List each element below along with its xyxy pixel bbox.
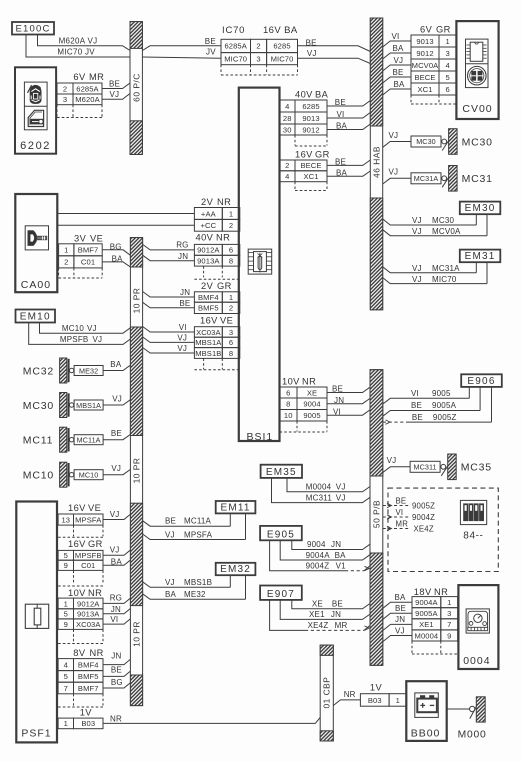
svg-text:BG: BG <box>111 678 123 687</box>
PSF1 pin 5 9013A <box>58 609 73 619</box>
svg-text:VJ: VJ <box>110 90 120 99</box>
PSF1 16V VE continuation dashes <box>73 525 75 536</box>
0004 continuation dashes <box>411 641 413 653</box>
wire VJ from 10 PR to BSI1 MBS1B <box>143 348 195 354</box>
svg-text:E907: E907 <box>267 589 295 600</box>
svg-text:MC311: MC311 <box>306 493 333 502</box>
connector label E906 <box>461 374 502 387</box>
splice label EM10 <box>16 310 56 323</box>
svg-text:84--: 84-- <box>463 531 483 542</box>
svg-text:BA: BA <box>165 590 177 599</box>
CA00 pin 1 BMF7 <box>59 244 74 256</box>
svg-text:BE: BE <box>396 496 407 505</box>
0004 pin 9005A 3 <box>412 608 441 619</box>
svg-text:MC31: MC31 <box>462 173 493 185</box>
svg-text:6285A: 6285A <box>224 42 247 51</box>
BSI1 pin 9013A 8 <box>194 255 222 266</box>
wire VJ from MBS1A to 10 PR <box>103 400 130 405</box>
wire VI 9013 to 46 HAB <box>327 113 370 119</box>
svg-text:JN: JN <box>180 288 190 297</box>
wire VJ MIC70 from 46 HAB to EM31 <box>383 278 487 284</box>
svg-text:10V: 10V <box>68 588 86 598</box>
svg-text:MBS1B: MBS1B <box>195 349 221 358</box>
svg-text:9004: 9004 <box>303 400 320 409</box>
svg-text:MC35: MC35 <box>461 462 492 474</box>
svg-text:MC311: MC311 <box>414 462 437 471</box>
svg-text:NR: NR <box>434 587 448 597</box>
svg-text:BE: BE <box>411 401 422 410</box>
PSF1 pin 4 BMF4 <box>58 659 73 671</box>
svg-text:MC32: MC32 <box>23 366 54 378</box>
svg-text:E905: E905 <box>267 529 295 540</box>
harness bar 46 HAB <box>370 18 382 310</box>
svg-text:EM32: EM32 <box>220 564 251 575</box>
svg-text:MIC70: MIC70 <box>432 275 457 284</box>
svg-text:MR: MR <box>335 621 348 630</box>
svg-text:V1: V1 <box>336 562 347 571</box>
wire VJ from 50 P/B to MC311 <box>383 467 410 473</box>
svg-text:JN: JN <box>178 252 188 261</box>
wire from BB00 to ground M000 <box>447 708 470 710</box>
svg-text:BMF5: BMF5 <box>198 304 219 313</box>
svg-text:40V: 40V <box>295 90 313 100</box>
svg-text:5: 5 <box>446 73 450 82</box>
wire VI from BSI1 9005 to 50 P/B <box>327 410 370 415</box>
0004 pin M0004 9 <box>412 630 441 641</box>
svg-text:NR: NR <box>90 648 104 658</box>
BSI1 pin 8 9004 <box>280 398 298 410</box>
svg-text:16V: 16V <box>200 315 218 325</box>
svg-text:EM10: EM10 <box>20 312 51 323</box>
connector label E905 <box>260 526 302 540</box>
svg-text:10 PR: 10 PR <box>131 458 141 484</box>
wire BE MC11A from 10 PR to EM11 <box>143 521 231 527</box>
svg-text:7: 7 <box>447 620 451 629</box>
PSF1 pin 9 XC03A <box>58 619 73 630</box>
svg-text:9005Z: 9005Z <box>412 502 435 511</box>
svg-text:BA: BA <box>111 558 123 567</box>
svg-text:BMF7: BMF7 <box>78 246 99 255</box>
wire BE from 10 PR to BSI1 BMF5 <box>143 302 195 308</box>
svg-text:7: 7 <box>64 684 68 693</box>
svg-text:30: 30 <box>283 125 292 134</box>
svg-text:9004Z: 9004Z <box>412 513 435 522</box>
svg-text:M000: M000 <box>458 729 487 740</box>
icon DIP switch in 84 <box>460 500 486 524</box>
wire VJ from 10 PR to BSI1 MBS1A <box>143 337 195 343</box>
svg-text:MC11A: MC11A <box>184 517 212 526</box>
BSI1 pin BMF4 1 <box>194 292 222 302</box>
wire XE1 JN from E907 to 50 P/B <box>280 600 370 620</box>
svg-text:GR: GR <box>217 281 232 291</box>
svg-text:VE: VE <box>90 234 103 244</box>
wire 9004Z V1 dashed from E905 to 50 P/B <box>270 540 345 571</box>
6202 pin 3 M620A <box>57 94 73 105</box>
wire JN from PSF1 9013A to 10 PR <box>103 609 130 614</box>
wire BG from PSF1 BMF7 to 10 PR <box>103 683 130 688</box>
BSI1 pin XC03A 3 <box>194 327 222 338</box>
0004 pin XE1 7 <box>412 619 441 630</box>
svg-text:MPSFB: MPSFB <box>75 551 102 560</box>
svg-text:46 HAB: 46 HAB <box>372 146 382 178</box>
svg-text:1: 1 <box>229 293 233 302</box>
wire NR from 01 CBP to B03 fuse <box>333 700 360 706</box>
svg-text:EM35: EM35 <box>266 467 297 478</box>
svg-text:MIC70: MIC70 <box>224 55 247 64</box>
svg-text:3: 3 <box>229 328 233 337</box>
harness bar 10 PR <box>130 238 142 706</box>
svg-text:BE: BE <box>335 98 346 107</box>
BSI1 pin MBS1A 6 <box>194 337 222 347</box>
svg-text:2: 2 <box>285 161 289 170</box>
svg-text:EM11: EM11 <box>220 502 250 513</box>
svg-text:2: 2 <box>229 304 233 313</box>
svg-text:VJ: VJ <box>93 335 103 344</box>
svg-text:VJ: VJ <box>395 626 405 635</box>
wire +AA from CA00 to BSI1 <box>57 213 194 215</box>
svg-text:BMF5: BMF5 <box>78 672 99 681</box>
BSI1 pin MBS1B 8 <box>194 348 222 359</box>
svg-text:VI: VI <box>337 110 345 119</box>
svg-text:9004A: 9004A <box>306 551 331 560</box>
svg-text:8: 8 <box>229 257 233 266</box>
splice label EM30 <box>460 202 501 215</box>
CV00 inner icon frame <box>466 39 489 88</box>
BSI1 pin 4 6285 <box>280 100 296 112</box>
BSI1 40V NR continuation dashes <box>203 266 205 277</box>
wire BA from CA00 pin2 to 10 PR <box>102 262 130 267</box>
svg-text:3: 3 <box>447 609 451 618</box>
svg-text:XE1: XE1 <box>419 620 434 629</box>
svg-text:ME32: ME32 <box>184 590 206 599</box>
svg-text:EM31: EM31 <box>465 251 496 262</box>
BSI1 pin 9012A 6 <box>194 244 222 255</box>
svg-text:MC30: MC30 <box>416 137 436 146</box>
svg-text:1: 1 <box>64 599 68 608</box>
svg-text:VI: VI <box>333 407 341 416</box>
svg-text:VJ: VJ <box>307 49 317 58</box>
svg-text:8V: 8V <box>73 648 86 658</box>
svg-text:9005A: 9005A <box>415 609 438 618</box>
svg-text:3: 3 <box>63 95 67 104</box>
svg-text:VJ: VJ <box>336 483 346 492</box>
ground M000 <box>470 706 475 711</box>
svg-text:BE: BE <box>335 157 346 166</box>
wire XE BE from E907 to 50 P/B <box>292 600 370 609</box>
wire BA ME32 from 10 PR to EM32 <box>143 594 246 600</box>
PSF1 pin 13 MPSFA <box>58 514 73 525</box>
BSI1 16V GR continuation dashes <box>294 182 296 190</box>
future component 84 dashed box <box>388 488 498 571</box>
svg-text:VJ: VJ <box>111 464 121 473</box>
svg-text:2: 2 <box>256 42 260 51</box>
icon key in CA00 <box>25 226 48 250</box>
svg-text:6285: 6285 <box>273 42 290 51</box>
svg-text:JV: JV <box>206 47 216 56</box>
svg-text:9012A: 9012A <box>77 599 100 608</box>
wire VJ from 46 HAB to MC31 <box>383 178 411 184</box>
svg-text:M0004: M0004 <box>415 631 439 640</box>
CA00 continuation dashes <box>58 268 60 278</box>
wire VJ MC30 from 46 HAB to EM30 <box>383 219 477 225</box>
svg-text:VI: VI <box>396 508 404 517</box>
svg-text:XC1: XC1 <box>417 85 432 94</box>
wire VJ MPSFA from 10 PR to EM11 <box>143 534 246 540</box>
wire VJ from 50 P/B to 0004 M0004 <box>383 636 412 642</box>
svg-text:9: 9 <box>64 620 68 629</box>
splice label EM11 <box>216 501 256 513</box>
connector label E100C <box>12 22 54 35</box>
svg-text:EM30: EM30 <box>465 203 496 214</box>
svg-text:9005A: 9005A <box>432 401 457 410</box>
svg-text:VJ: VJ <box>110 545 120 554</box>
wire BA from 46 HAB to CV00 pin 6 <box>383 89 411 95</box>
svg-text:1V: 1V <box>80 707 93 717</box>
svg-text:BSI1: BSI1 <box>247 431 274 443</box>
svg-text:8: 8 <box>229 349 233 358</box>
wire RG from 10 PR to BSI1 9012A <box>143 244 195 250</box>
svg-text:6V: 6V <box>73 72 86 82</box>
svg-text:C01: C01 <box>81 258 95 267</box>
svg-text:9013A: 9013A <box>197 257 220 266</box>
wire VI from 10 PR to BSI1 XC03A <box>143 327 195 333</box>
svg-text:MC10: MC10 <box>62 324 84 333</box>
BSI1 pin 2 BECE <box>280 160 296 171</box>
svg-text:BMF4: BMF4 <box>78 660 99 669</box>
svg-text:MC30: MC30 <box>432 216 454 225</box>
CV00 pin 9012 3 <box>411 47 439 59</box>
svg-text:MIC70: MIC70 <box>271 55 294 64</box>
svg-text:VI: VI <box>411 389 419 398</box>
wire VJ from MC10 to 10 PR <box>103 469 130 474</box>
PSF1 pin 9 C01 <box>58 560 73 570</box>
wire VJ MBS1B from 10 PR to EM32 <box>143 582 231 588</box>
wire M0004 VJ from EM35 to 50 P/B <box>287 478 370 492</box>
wire BA XC1 to 46 HAB <box>327 171 370 176</box>
wire MIC70 JV from E100C through harness to IC70 <box>26 35 130 58</box>
svg-text:XC03A: XC03A <box>196 328 221 337</box>
svg-text:RG: RG <box>176 240 188 249</box>
connector label E907 <box>260 586 302 600</box>
PSF1 8V NR continuation dashes <box>73 694 75 706</box>
svg-text:VI: VI <box>392 32 400 41</box>
svg-text:01 CBP: 01 CBP <box>322 677 332 709</box>
svg-text:MPSFA: MPSFA <box>75 515 102 524</box>
wire BE from 50 P/B to 0004 9005A <box>383 613 412 619</box>
svg-text:60 P/C: 60 P/C <box>131 73 141 102</box>
wire VJ MCV0A from 46 HAB to EM30 <box>383 230 487 236</box>
component PSF1 box (fuse box) <box>16 502 57 743</box>
svg-text:2: 2 <box>64 258 68 267</box>
svg-text:VI: VI <box>179 323 187 332</box>
BSI1 pin +CC 2 <box>194 219 222 231</box>
svg-text:VJ: VJ <box>389 131 399 140</box>
wire BA from ME32 to 10 PR <box>103 365 130 370</box>
svg-text:5: 5 <box>64 551 68 560</box>
svg-text:1: 1 <box>447 598 451 607</box>
svg-text:VJ: VJ <box>112 394 122 403</box>
fuse icon inside PSF1 <box>25 604 48 628</box>
svg-text:M620A VJ: M620A VJ <box>59 37 98 46</box>
svg-text:BE: BE <box>205 37 216 46</box>
6202 connector continuation dashes <box>56 105 58 117</box>
BSI1 40V BA continuation dashes <box>294 135 296 146</box>
PSF1 pin 1 B03 <box>58 718 73 729</box>
svg-text:9013: 9013 <box>302 114 319 123</box>
svg-text:B03: B03 <box>368 696 382 705</box>
PSF1 10V NR continuation dashes <box>73 629 75 641</box>
wire JN from 50 P/B to 0004 XE1 <box>383 624 412 630</box>
svg-text:M0004: M0004 <box>306 483 332 492</box>
svg-text:BE: BE <box>179 299 190 308</box>
svg-text:9013A: 9013A <box>77 610 100 619</box>
svg-text:BE: BE <box>111 666 122 675</box>
svg-text:XE4Z: XE4Z <box>308 621 329 630</box>
svg-text:9012: 9012 <box>302 125 319 134</box>
svg-text:VJ: VJ <box>177 333 187 342</box>
svg-text:1: 1 <box>64 719 68 728</box>
BSI1 pin 6 XE <box>280 387 298 398</box>
CV00 pin BECE 5 <box>411 71 439 83</box>
svg-text:VE: VE <box>220 315 233 325</box>
PSF1 16V GR continuation dashes <box>73 570 75 584</box>
wire RG from PSF1 9012A to 10 PR <box>103 598 130 603</box>
svg-text:BA: BA <box>393 44 405 53</box>
splice label EM32 <box>216 563 256 575</box>
svg-text:9: 9 <box>447 631 451 640</box>
BSI1 16V VE continuation dashes <box>203 358 205 369</box>
svg-text:1V: 1V <box>370 683 383 693</box>
svg-text:MC11: MC11 <box>23 435 53 447</box>
PSF1 pin 7 BMF7 <box>58 682 73 694</box>
wire VJ MC31A from 46 HAB to EM31 <box>383 267 477 273</box>
splice label EM31 <box>460 250 501 263</box>
svg-text:BE: BE <box>165 517 176 526</box>
svg-text:6: 6 <box>286 388 290 397</box>
icon round connector in CV00 <box>468 66 487 85</box>
svg-text:NR: NR <box>110 714 122 723</box>
CV00 pin XC1 6 <box>411 83 439 95</box>
svg-text:MC31A: MC31A <box>414 174 439 183</box>
svg-text:BECE: BECE <box>300 161 321 170</box>
wire VJ from IC70 to 46 HAB <box>298 58 371 63</box>
svg-text:MC10: MC10 <box>79 471 99 480</box>
svg-text:BE: BE <box>332 600 343 609</box>
wire M620A VJ from E100C to harness 60 P/C <box>38 35 131 51</box>
svg-text:VJ: VJ <box>336 493 346 502</box>
wire VI from PSF1 XC03A to 10 PR <box>103 619 130 624</box>
svg-text:28: 28 <box>283 114 292 123</box>
svg-text:MC30: MC30 <box>462 136 493 148</box>
svg-text:+AA: +AA <box>201 209 217 218</box>
svg-text:XE4Z: XE4Z <box>414 525 434 534</box>
svg-text:NR: NR <box>216 233 230 243</box>
svg-text:XE1: XE1 <box>309 610 325 619</box>
svg-text:16V: 16V <box>68 503 86 513</box>
wire BA from 50 P/B to 0004 9004A <box>383 602 412 608</box>
wire VJ from 46 HAB to MC30 <box>383 142 411 148</box>
icon gauge cluster in 0004 <box>466 609 489 633</box>
svg-text:XC1: XC1 <box>303 172 318 181</box>
svg-text:VJ: VJ <box>412 216 422 225</box>
svg-text:MIC70 JV: MIC70 JV <box>57 48 95 57</box>
svg-text:BA: BA <box>335 551 347 560</box>
wire MPSFB VJ from EM10 to 10 PR <box>29 323 131 345</box>
icon IC chip in CV00 <box>470 42 483 61</box>
ECU BSI1 box <box>239 88 280 441</box>
svg-text:E100C: E100C <box>15 24 50 35</box>
icon car top-view in 6202 <box>30 85 41 103</box>
harness bar 60 P/C <box>130 22 142 155</box>
svg-text:BE: BE <box>109 80 120 89</box>
component BB00 box (battery) <box>406 681 446 741</box>
harness bar 50 P/B <box>370 370 383 666</box>
svg-text:XE: XE <box>312 600 323 609</box>
svg-text:5: 5 <box>64 610 68 619</box>
svg-text:13: 13 <box>61 515 70 524</box>
svg-text:BG: BG <box>110 242 122 251</box>
svg-text:JN: JN <box>395 615 405 624</box>
svg-text:MBS1A: MBS1A <box>76 401 101 410</box>
ground MC31 <box>411 173 441 184</box>
svg-text:9004A: 9004A <box>415 598 438 607</box>
svg-text:BA: BA <box>394 80 406 89</box>
svg-text:VJ: VJ <box>87 324 97 333</box>
dashed stub MR XE4Z in 84 <box>383 528 409 530</box>
svg-text:MR: MR <box>396 519 409 528</box>
svg-text:3: 3 <box>446 49 450 58</box>
svg-text:9004: 9004 <box>307 540 326 549</box>
svg-text:9005Z: 9005Z <box>433 413 457 422</box>
svg-text:MPSFA: MPSFA <box>184 531 213 540</box>
svg-text:1: 1 <box>396 696 400 705</box>
CA00 pin 2 C01 <box>59 256 74 268</box>
svg-text:VJ: VJ <box>412 264 422 273</box>
svg-text:VJ: VJ <box>412 227 422 236</box>
svg-text:VJ: VJ <box>165 578 175 587</box>
IC70 row 6285A 2 6285 <box>221 39 251 52</box>
0004 pin 9004A 1 <box>412 597 441 608</box>
wire VJ from PSF1 MPSFB to 10 PR <box>103 550 130 555</box>
svg-text:4: 4 <box>446 61 450 70</box>
IC70 continuation dashes <box>220 65 222 75</box>
svg-text:BECE: BECE <box>414 73 435 82</box>
wire VJ from 6202 pin 3 to 60 P/C <box>102 94 130 100</box>
svg-text:6285A: 6285A <box>76 84 99 93</box>
wire BE BECE to 46 HAB <box>327 160 370 165</box>
wire MC311 VJ from EM35 to 50 P/B <box>272 478 371 503</box>
wire BE from 60 P/C to IC70 <box>142 46 221 51</box>
wire VJ from 46 HAB to CV00 pin 4 <box>383 65 411 71</box>
wire BA from PSF1 C01 to 10 PR <box>103 560 130 565</box>
svg-text:MCV0A: MCV0A <box>412 61 439 70</box>
svg-text:9005: 9005 <box>303 411 320 420</box>
svg-text:4: 4 <box>64 660 68 669</box>
svg-text:C01: C01 <box>81 561 95 570</box>
svg-text:6: 6 <box>229 246 233 255</box>
svg-text:RG: RG <box>110 594 122 603</box>
wire BE from 6202 pin 2 to 60 P/C <box>102 83 130 89</box>
ground MC35 <box>410 461 440 472</box>
svg-text:MBS1B: MBS1B <box>184 578 212 587</box>
svg-text:JN: JN <box>331 610 341 619</box>
svg-text:BE: BE <box>111 429 122 438</box>
BSI1 pin BMF5 2 <box>194 302 222 313</box>
wire 9004A BA from E905 to 50 P/B <box>280 540 370 560</box>
svg-text:NR: NR <box>302 377 316 387</box>
svg-text:6: 6 <box>229 338 233 347</box>
svg-text:16V: 16V <box>68 539 86 549</box>
